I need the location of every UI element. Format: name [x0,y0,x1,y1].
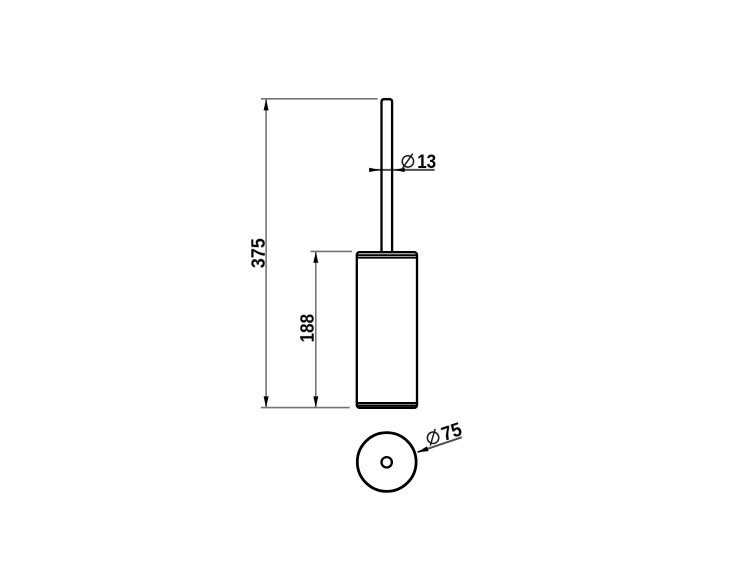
lid seam line 1 [356,254,418,256]
arrowhead 188 top [313,252,318,263]
svg-text:188: 188 [297,314,319,343]
base rim line 1 (rim top edge) [356,402,418,404]
extension line top (at rod top level) [261,98,378,100]
arrowhead 188 bottom [313,396,318,407]
diameter symbol and label 75 (rotated with leader) [424,418,465,450]
lid seam line 2 (lid bottom edge) [356,257,418,259]
arrowhead dia13 right (points left at rod right edge) [394,168,404,172]
bottom view outer circle [357,433,416,492]
arrowhead dia13 left (points right at rod left edge) [369,168,379,172]
arrowhead 375 top [264,99,269,110]
svg-text:75: 75 [439,418,465,445]
rod (brush handle) [382,99,393,252]
arrowhead 375 bottom [264,396,269,407]
base rim line 2 [356,405,418,407]
dimension line 375 [265,99,267,407]
bottom view inner circle (handle hole) [382,457,392,467]
svg-text:13: 13 [417,151,436,173]
leader line diameter 75 [417,437,461,452]
extension line 188 top (at lid top level) [310,250,352,252]
extension line bottom (shared, at container bottom level) [261,407,350,409]
container outline (cylinder front view) [357,252,417,408]
dimension line diameter 13 [369,169,434,171]
svg-text:375: 375 [248,238,270,268]
arrowhead dia75 (points at circle edge) [417,446,428,452]
diameter symbol for 13 [402,154,413,168]
dimension line 188 [315,252,317,408]
